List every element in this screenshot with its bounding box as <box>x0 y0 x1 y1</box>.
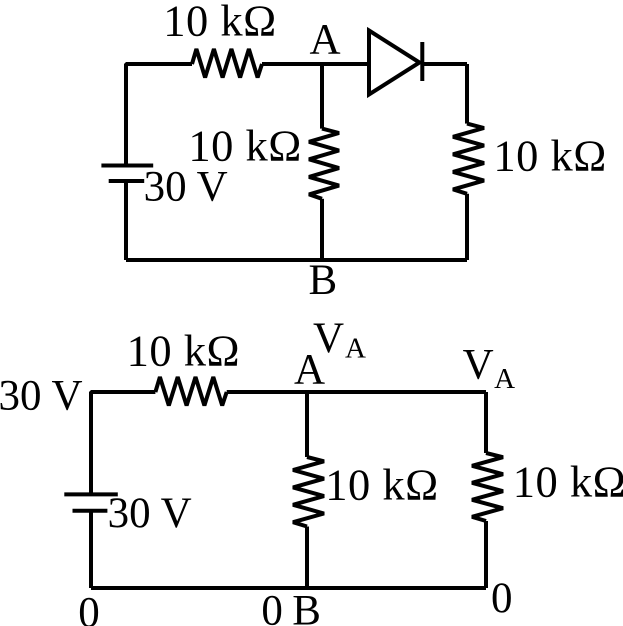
svg-text:30 V: 30 V <box>0 372 83 419</box>
wire: top circuit left side + top-left segment <box>126 64 192 167</box>
wire: resistor R6 to bottom-right corner <box>484 521 488 588</box>
svg-text:B: B <box>292 588 321 626</box>
wire: bottom circuit left side + top rail left of resistor R4 <box>91 392 155 494</box>
wire: resistor R1 to node A to diode anode <box>262 62 368 66</box>
svg-text:V: V <box>463 342 494 389</box>
svg-text:10 kΩ: 10 kΩ <box>127 326 240 376</box>
svg-text:30 V: 30 V <box>108 490 192 537</box>
svg-text:10 kΩ: 10 kΩ <box>163 0 276 46</box>
svg-text:A: A <box>345 333 366 365</box>
svg-text:A: A <box>494 363 515 395</box>
wire: top-right corner down to resistor R6 <box>484 392 488 453</box>
wire: resistor R2 to node B <box>320 199 324 260</box>
svg-text:30 V: 30 V <box>144 164 228 211</box>
svg-text:10 kΩ: 10 kΩ <box>513 456 623 506</box>
wire: resistor R5 to bottom rail (node B) <box>305 527 309 589</box>
wire: resistor R3 to bottom-right corner <box>465 194 469 260</box>
svg-text:10 kΩ: 10 kΩ <box>493 131 606 181</box>
resistor R3 (top circuit, 10 kOhm vertical right) <box>453 124 484 194</box>
diode D1 cathode bar <box>420 42 424 81</box>
battery V2 short plate (negative) <box>73 509 108 513</box>
resistor R1 (top circuit, 10 kOhm horizontal) <box>192 49 262 78</box>
resistor R4 (bottom circuit, 10 kOhm horizontal) <box>155 377 226 406</box>
battery V1 long plate (positive) <box>101 164 153 168</box>
svg-text:V: V <box>313 315 344 362</box>
resistor R6 (bottom circuit, 10 kOhm vertical right) <box>472 453 503 521</box>
node A branch wire (bottom circuit, upper) <box>305 392 309 457</box>
wire: diode cathode to top-right corner <box>422 62 467 66</box>
node A branch wire (top circuit, upper) <box>320 64 324 129</box>
svg-text:A: A <box>310 17 341 64</box>
diode D1 triangle <box>369 31 420 95</box>
svg-text:0: 0 <box>491 575 513 622</box>
wire: battery V2 bottom lead <box>89 511 93 588</box>
resistor R5 (bottom circuit, 10 kOhm vertical middle) <box>293 457 324 527</box>
svg-text:0: 0 <box>261 588 283 626</box>
battery V1 short plate (negative) <box>109 179 145 183</box>
battery V2 long plate (positive) <box>64 492 118 496</box>
wire: bottom circuit top rail right of resistor R4 <box>227 390 486 394</box>
svg-text:10 kΩ: 10 kΩ <box>325 460 438 510</box>
wire: top-right corner down to resistor R3 <box>465 64 469 124</box>
wire: battery V1 bottom lead <box>124 181 128 260</box>
wire: bottom circuit bottom rail (0 V rail) <box>91 586 486 590</box>
wire: top circuit bottom rail (node B rail) <box>126 258 467 262</box>
svg-text:B: B <box>309 257 338 304</box>
svg-text:0: 0 <box>78 590 100 626</box>
resistor R2 (top circuit, 10 kOhm vertical middle) <box>309 129 339 199</box>
